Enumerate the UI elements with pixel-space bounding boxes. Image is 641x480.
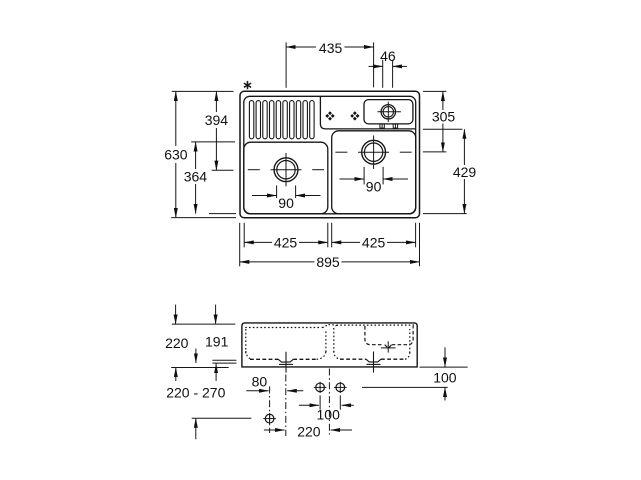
optional tap hole diamond 1 bbox=[321, 107, 339, 125]
svg-text:305: 305 bbox=[432, 109, 456, 125]
right extension lines bbox=[423, 91, 467, 213]
svg-text:425: 425 bbox=[362, 234, 386, 250]
svg-text:220: 220 bbox=[297, 423, 321, 439]
svg-text:80: 80 bbox=[252, 374, 268, 390]
tap platform bbox=[364, 100, 413, 124]
tap hole bbox=[381, 105, 395, 119]
dimension 425 right bbox=[332, 241, 416, 243]
dimension 80 bbox=[246, 390, 303, 392]
dimension 90 left drain bbox=[252, 185, 321, 198]
dotted rim left bowl bbox=[245, 325, 414, 360]
side view body bbox=[242, 323, 417, 367]
svg-text:191: 191 bbox=[205, 333, 229, 349]
mounting hole left bbox=[263, 413, 276, 424]
svg-text:630: 630 bbox=[164, 147, 188, 163]
dimension 895 bbox=[240, 261, 420, 263]
mounting hole top pair bbox=[314, 382, 347, 393]
dimension 220 bottom bbox=[264, 429, 352, 431]
svg-text:425: 425 bbox=[274, 234, 298, 250]
dimension 630 bbox=[175, 91, 177, 217]
tap deck centre tick bbox=[381, 341, 396, 352]
svg-text:429: 429 bbox=[453, 164, 477, 180]
svg-text:435: 435 bbox=[319, 40, 343, 56]
right bowl drain funnel bbox=[366, 352, 381, 373]
optional tap hole diamond 2 bbox=[346, 107, 364, 125]
inner rim bbox=[244, 96, 416, 214]
outer frame bbox=[240, 91, 420, 217]
tap clamps bbox=[380, 124, 398, 128]
left bowl bbox=[244, 142, 328, 214]
svg-text:394: 394 bbox=[205, 112, 229, 128]
svg-text:100: 100 bbox=[317, 406, 341, 422]
dimension 90 right drain bbox=[340, 167, 409, 185]
drainboard right edge and deck bottom bbox=[320, 96, 415, 128]
svg-text:90: 90 bbox=[278, 195, 294, 211]
svg-text:220 - 270: 220 - 270 bbox=[166, 385, 225, 401]
svg-text:220: 220 bbox=[165, 335, 189, 351]
left extension lines bbox=[171, 91, 236, 217]
left drain bbox=[274, 158, 298, 182]
star marker bbox=[244, 81, 251, 89]
side view left dimensions bbox=[171, 305, 251, 440]
tap deck dashed profile bbox=[365, 326, 413, 348]
svg-text:100: 100 bbox=[433, 370, 457, 386]
dimension 100 right bbox=[362, 347, 468, 400]
dimension 429 bbox=[463, 129, 465, 213]
right drain bbox=[362, 140, 386, 164]
dimension 425 left bbox=[244, 241, 328, 243]
svg-text:364: 364 bbox=[184, 169, 208, 185]
drainboard ribs bbox=[249, 101, 314, 139]
right bowl bbox=[332, 131, 416, 214]
dimension 394 bbox=[215, 91, 217, 170]
dimension 305 bbox=[442, 91, 444, 151]
svg-text:90: 90 bbox=[366, 178, 382, 194]
extension lines below frame bbox=[240, 223, 420, 266]
dashed bowl bottoms bbox=[250, 358, 406, 360]
dimension 435 bbox=[286, 42, 374, 87]
dimension 100 bottom middle bbox=[299, 395, 354, 409]
dimension 46 bbox=[369, 60, 407, 88]
centrelines below side view bbox=[270, 369, 330, 437]
dimension 364 bbox=[195, 142, 197, 214]
left bowl drain funnel bbox=[278, 352, 293, 373]
svg-text:895: 895 bbox=[316, 254, 340, 270]
svg-text:46: 46 bbox=[380, 48, 396, 64]
